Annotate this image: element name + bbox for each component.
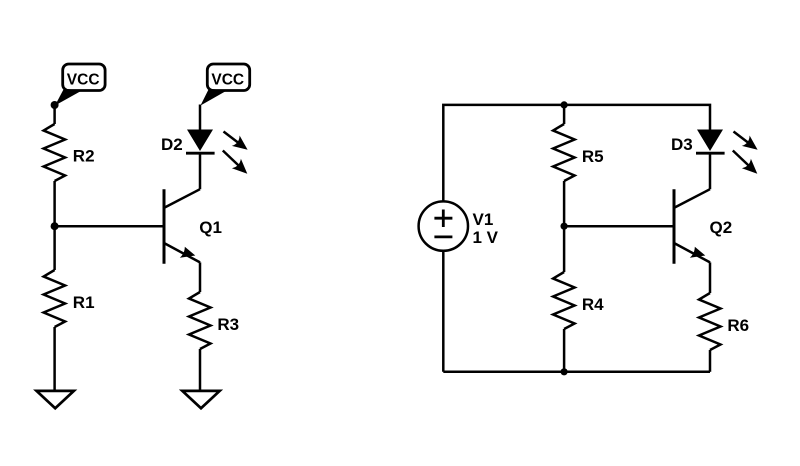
ground (right of left circuit) bbox=[182, 391, 219, 408]
transistor Q2 (NPN) bbox=[674, 189, 732, 264]
wire bottom rail bbox=[443, 371, 710, 374]
wire R4 to bottom rail bbox=[563, 329, 566, 372]
svg-text:1 V: 1 V bbox=[473, 228, 499, 247]
wire R5 to mid node bbox=[563, 181, 566, 226]
resistor R6 bbox=[699, 293, 721, 350]
LED D3 emission arrow 2 bbox=[733, 151, 758, 174]
svg-text:R1: R1 bbox=[73, 293, 95, 312]
wire D2 cathode to Q1 collector bbox=[199, 153, 202, 189]
wire VCC to D2 anode bbox=[199, 105, 202, 130]
wire base node to Q1 base bbox=[55, 225, 164, 228]
svg-text:V1: V1 bbox=[473, 210, 494, 229]
wire R2 to base node bbox=[53, 181, 56, 226]
resistor R2 bbox=[44, 124, 66, 181]
resistor R3 bbox=[189, 292, 211, 349]
LED D2 emission arrow 1 bbox=[224, 132, 248, 150]
net flag VCC (right, over D2) bbox=[201, 64, 250, 106]
svg-text:Q2: Q2 bbox=[710, 218, 733, 237]
svg-text:R4: R4 bbox=[582, 295, 604, 314]
voltage source V1 bbox=[419, 201, 499, 250]
wire base node to R1 bbox=[53, 226, 56, 270]
svg-text:Q1: Q1 bbox=[199, 218, 222, 237]
wire R3 to ground bbox=[199, 349, 202, 391]
svg-text:VCC: VCC bbox=[67, 72, 100, 89]
wire Q2 emitter to R6 bbox=[709, 262, 712, 293]
resistor R4 bbox=[553, 272, 575, 329]
resistor R5 bbox=[553, 124, 575, 181]
ground (left) bbox=[37, 391, 74, 408]
LED D2 bbox=[161, 130, 215, 154]
LED D3 bbox=[671, 130, 725, 154]
node junction dot bottom bbox=[561, 368, 568, 375]
wire top rail to R5 bbox=[563, 105, 566, 124]
svg-text:R6: R6 bbox=[727, 316, 749, 335]
wire mid node to R4 bbox=[563, 226, 566, 272]
LED D3 emission arrow 1 bbox=[734, 132, 758, 150]
node junction dot mid bbox=[561, 223, 568, 230]
node junction dot at VCC tap bbox=[51, 101, 59, 109]
LED D2 emission arrow 2 bbox=[223, 151, 248, 174]
wire mid node to Q2 base bbox=[564, 225, 674, 228]
node junction dot (base node) bbox=[51, 222, 59, 230]
svg-text:R5: R5 bbox=[582, 147, 604, 166]
node junction dot top bbox=[561, 101, 568, 108]
svg-text:VCC: VCC bbox=[211, 72, 244, 89]
wire V1 to bottom rail bbox=[442, 251, 445, 372]
svg-text:D2: D2 bbox=[161, 135, 183, 154]
wire Q1 emitter to R3 bbox=[199, 262, 202, 292]
wire R6 to bottom rail bbox=[709, 350, 712, 372]
transistor Q1 (NPN) bbox=[164, 189, 222, 264]
wire top rail bbox=[443, 105, 710, 201]
net flag VCC (left, over R2) bbox=[55, 64, 105, 106]
wire D3 cathode to Q2 collector bbox=[709, 153, 712, 189]
resistor R1 bbox=[44, 270, 66, 327]
wire R1 to ground bbox=[53, 327, 56, 391]
svg-text:R3: R3 bbox=[217, 315, 239, 334]
svg-text:R2: R2 bbox=[73, 147, 95, 166]
wire VCC dot to R2 bbox=[53, 105, 56, 124]
svg-text:D3: D3 bbox=[671, 135, 693, 154]
